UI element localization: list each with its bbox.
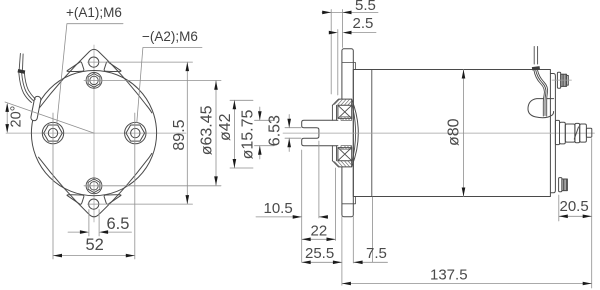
svg-text:137.5: 137.5 xyxy=(430,267,468,284)
dimension o15.75 xyxy=(255,107,275,159)
svg-text:6.5: 6.5 xyxy=(107,215,130,233)
20 degree dimension xyxy=(6,105,8,132)
svg-text:20°: 20° xyxy=(9,106,25,128)
solenoid body shell xyxy=(353,70,550,197)
dimension 52 (terminal spacing) xyxy=(53,113,135,259)
svg-text:20.5: 20.5 xyxy=(560,198,589,215)
svg-text:ø63.45: ø63.45 xyxy=(199,105,216,155)
dimension o80 xyxy=(463,70,465,197)
svg-text:6.53: 6.53 xyxy=(267,115,284,146)
top ear cutout right xyxy=(104,62,121,72)
flange step line bottom xyxy=(342,197,356,204)
top ear cutout left xyxy=(67,62,84,72)
svg-text:ø80: ø80 xyxy=(446,118,463,146)
svg-text:52: 52 xyxy=(86,236,104,254)
dimension 137.5 xyxy=(342,283,592,285)
centerline horizontal front view xyxy=(6,132,186,134)
bottom ear cutout right xyxy=(104,195,121,205)
dimension 22 xyxy=(302,168,336,241)
svg-text:89.5: 89.5 xyxy=(171,119,188,150)
svg-text:5.5: 5.5 xyxy=(355,0,376,14)
plunger with fork slot xyxy=(302,120,338,145)
end cap xyxy=(550,74,555,193)
wire ferrule band xyxy=(18,69,26,74)
hub chamfer bottom xyxy=(332,161,351,167)
dimension 6.5 (ear hole) xyxy=(68,210,132,237)
main body circle o80 xyxy=(31,71,156,196)
top ear hole 6.5 xyxy=(89,57,99,67)
20 degree reference line xyxy=(5,102,94,133)
dimension 5.5 xyxy=(322,10,378,95)
terminal stud top (M6) xyxy=(557,72,568,88)
svg-text:22: 22 xyxy=(311,223,328,240)
stud nut bottom xyxy=(86,178,102,194)
bottom mounting ear xyxy=(39,153,152,216)
wire exit grommet tab xyxy=(30,96,41,121)
svg-text:+(A1);M6: +(A1);M6 xyxy=(66,5,122,20)
hub white mask xyxy=(332,99,351,167)
svg-text:25.5: 25.5 xyxy=(305,245,334,262)
terminal nut right A2 xyxy=(125,122,146,143)
terminal nut left A1 xyxy=(42,122,63,143)
bottom ear cutout left xyxy=(67,195,84,205)
dimension 6.53 xyxy=(285,115,301,152)
dimension 10.5 xyxy=(256,141,326,262)
wire leads front view xyxy=(19,54,36,103)
centerline horizontal side view xyxy=(283,132,595,134)
body seam line xyxy=(371,70,373,197)
centerline stud top xyxy=(552,79,572,81)
dimension 89.5 (hole to hole) xyxy=(88,62,193,204)
dimension o63.45 (stud circle) xyxy=(84,80,221,185)
svg-text:2.5: 2.5 xyxy=(353,15,374,32)
bushing strip top xyxy=(341,117,352,121)
terminal stud bottom xyxy=(559,178,568,192)
dimension 20.5 xyxy=(559,139,592,289)
bushing strip bottom xyxy=(341,146,352,150)
mounting flange plate xyxy=(342,49,353,217)
plunger white mask xyxy=(302,121,352,146)
top mounting ear xyxy=(39,49,152,112)
wire ferrule band side xyxy=(532,66,540,70)
hub left face xyxy=(332,105,336,160)
stud nut top xyxy=(86,73,102,89)
centerline vertical front view xyxy=(93,45,95,222)
dimension 25.5 xyxy=(302,217,342,286)
hub bearing block bottom (X section) xyxy=(338,148,352,161)
wire clamp xyxy=(528,99,554,118)
svg-text:−(A2);M6: −(A2);M6 xyxy=(142,29,198,44)
dimension 2.5 xyxy=(330,30,376,96)
hub bearing block top (X section) xyxy=(338,105,352,118)
hub chamfer top xyxy=(332,99,351,105)
wire leads side view xyxy=(534,47,548,117)
main battery terminal middle xyxy=(555,120,591,144)
svg-text:10.5: 10.5 xyxy=(264,200,293,217)
dimension 7.5 xyxy=(353,197,387,263)
flange step line top xyxy=(342,63,356,70)
boss dome xyxy=(352,100,359,167)
dimension o42 xyxy=(230,100,253,168)
bottom ear hole 6.5 xyxy=(89,199,99,209)
svg-text:ø15.75: ø15.75 xyxy=(239,109,256,159)
svg-text:7.5: 7.5 xyxy=(366,245,387,262)
svg-text:ø42: ø42 xyxy=(217,113,234,141)
